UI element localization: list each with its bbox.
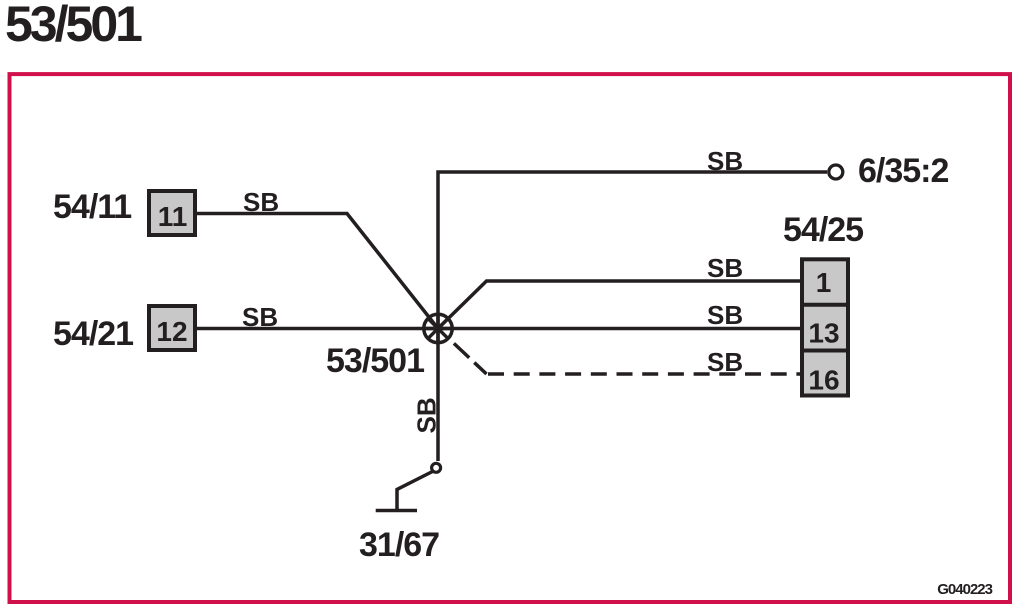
svg-text:16: 16 — [808, 365, 839, 396]
svg-text:SB: SB — [242, 302, 278, 332]
svg-text:SB: SB — [707, 146, 743, 176]
svg-text:SB: SB — [243, 187, 279, 217]
connector 54/25 separator pin1/pin13 — [800, 303, 850, 307]
connector 54/25 separator pin13/pin16 — [800, 349, 850, 353]
svg-text:54/11: 54/11 — [53, 188, 131, 226]
svg-text:SB: SB — [412, 397, 442, 433]
wire SB from node 53/501 down to ground terminal — [436, 329, 440, 462]
svg-text:13: 13 — [808, 318, 839, 349]
svg-text:6/35:2: 6/35:2 — [858, 152, 948, 190]
node 53/501 junction symbol — [424, 314, 452, 342]
connector box 54/21 pin 12 — [149, 306, 195, 350]
svg-text:31/67: 31/67 — [359, 526, 439, 564]
svg-text:G040223: G040223 — [937, 581, 992, 598]
dashed wire SB from node 53/501 to 54/25 pin 16 (diagonal part) — [454, 343, 487, 374]
terminal circle 6/35:2 — [829, 165, 843, 179]
svg-text:SB: SB — [707, 347, 743, 377]
svg-text:54/25: 54/25 — [783, 211, 863, 249]
svg-text:12: 12 — [156, 316, 187, 347]
ground symbol 31/67 — [397, 472, 433, 510]
svg-text:SB: SB — [707, 300, 743, 330]
dashed wire SB from node 53/501 to 54/25 pin 16 (horizontal part) — [488, 372, 800, 376]
svg-text:11: 11 — [158, 201, 188, 232]
wire SB from node 53/501 to 54/25 pin 1 — [438, 281, 800, 329]
connector 54/25 housing — [802, 259, 848, 395]
wire SB from node 53/501 up to terminal 6/35:2 — [438, 172, 827, 329]
ground terminal circle — [432, 463, 441, 472]
svg-text:53/501: 53/501 — [5, 0, 142, 52]
wire SB from 54/11 pin 11 to node 53/501 — [197, 214, 438, 329]
connector box 54/11 pin 11 — [149, 191, 195, 235]
svg-text:54/21: 54/21 — [53, 315, 133, 353]
wire SB from 54/21 pin 12 through node 53/501 to 54/25 pin 13 — [197, 327, 800, 331]
svg-text:SB: SB — [707, 253, 743, 283]
svg-text:1: 1 — [816, 267, 832, 298]
svg-text:53/501: 53/501 — [326, 342, 424, 380]
